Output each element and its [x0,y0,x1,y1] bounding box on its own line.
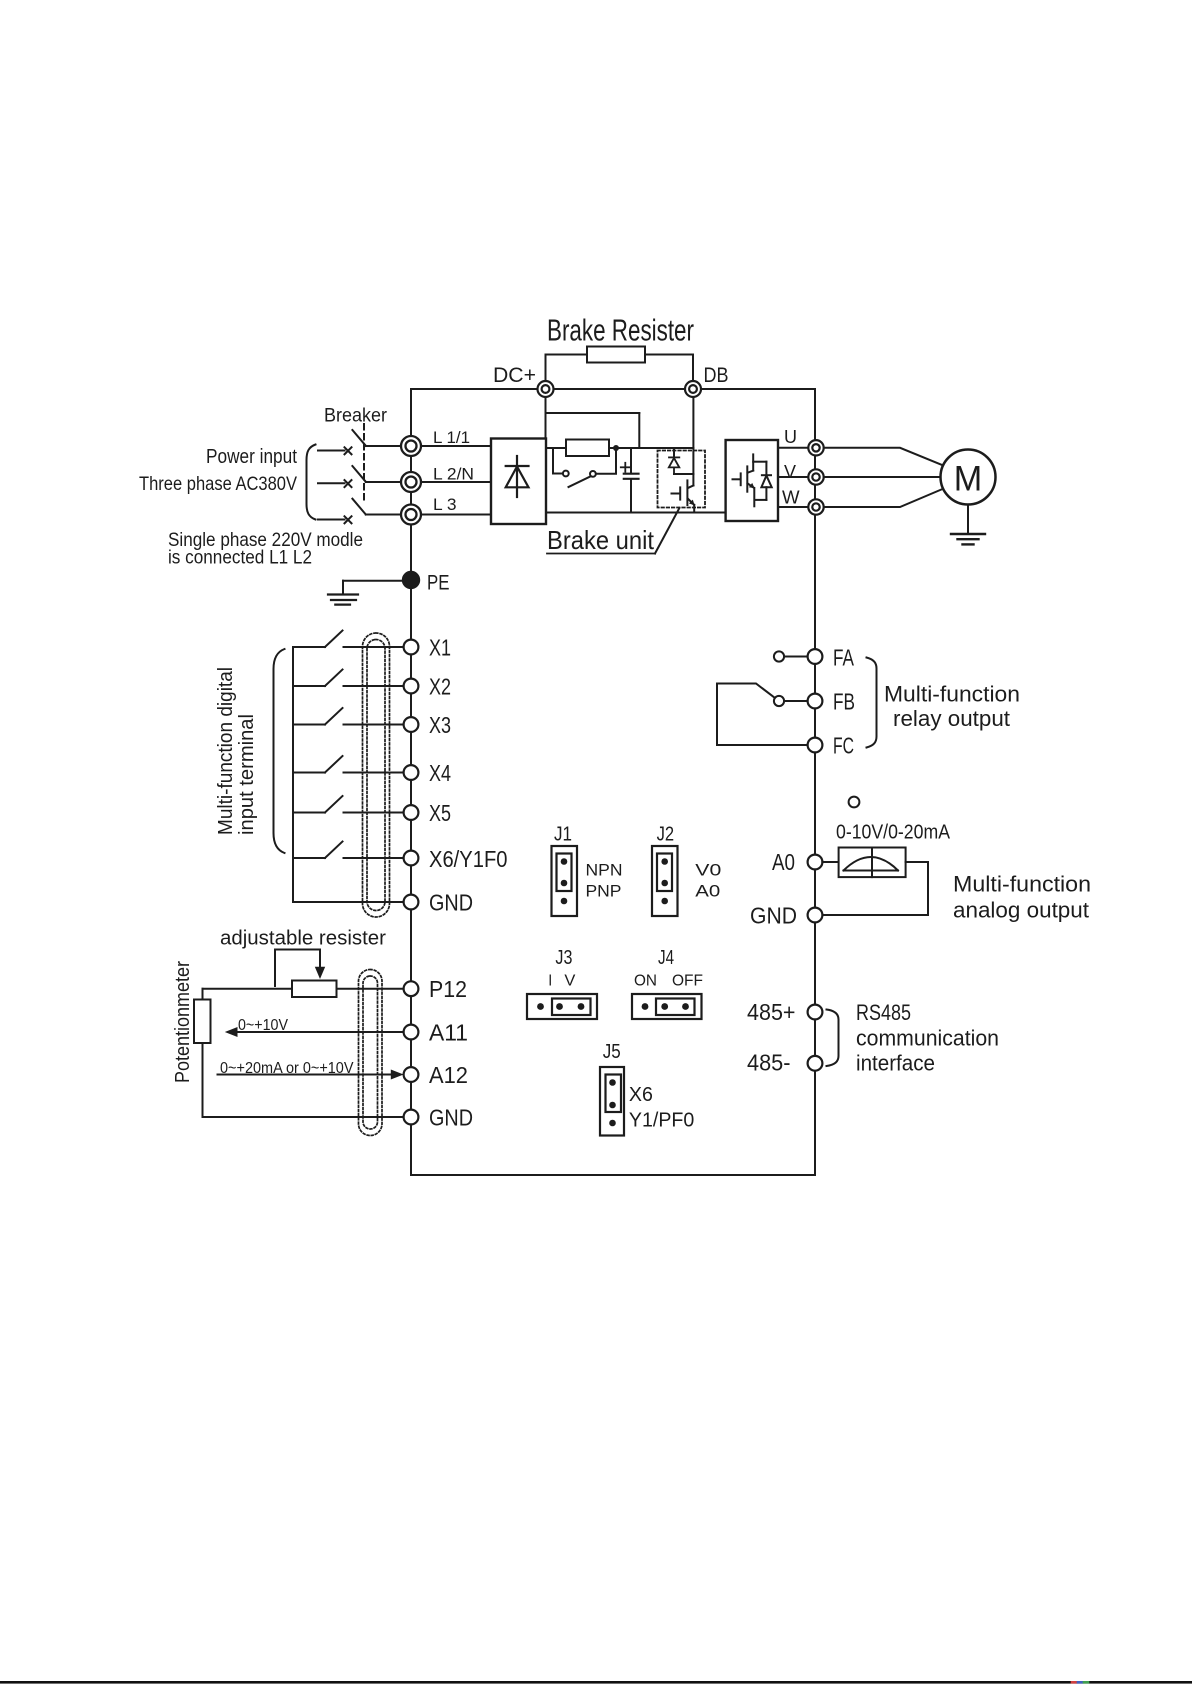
terminal L2/N (double circle) [401,472,421,492]
wire: L2 to rectifier [421,481,491,483]
decorative colored ticks on footer [1072,1681,1088,1684]
svg-text:M: M [954,459,983,499]
wire: A12 signal line [218,1074,392,1076]
svg-text:J2: J2 [657,824,675,846]
svg-text:Y1/PF0: Y1/PF0 [629,1110,694,1132]
wire: PE to earth [343,580,403,582]
wire: potentiometer rail [202,989,204,1117]
terminal P12 [404,981,419,996]
svg-text:FB: FB [833,689,855,715]
svg-text:L 1/1: L 1/1 [433,428,470,447]
terminal A11 [404,1025,419,1040]
terminal X1 [404,640,419,655]
switch X6: rail stub, blade, lead [293,842,404,859]
wire: inverter to W terminal [778,506,808,508]
switch X1: rail stub, blade, lead [293,631,404,648]
svg-text:Brake unit: Brake unit [547,525,655,555]
pin dots J5 [609,1079,616,1126]
wire: DC negative rail [546,512,726,514]
arrowhead: pointer down [315,967,325,979]
ground: PE earth symbol [328,595,358,605]
svg-text:X2: X2 [429,673,451,699]
wire: brake unit pointer [655,508,679,554]
terminal GND analog output [808,908,823,923]
wire: main frame left bus [410,389,412,1175]
shield: analog cable screen outer [359,970,383,1136]
svg-text:W: W [782,488,800,508]
svg-text:Brake Resister: Brake Resister [547,313,694,348]
wire: brake resistor lead right [645,354,693,356]
wire: capacitor drop [630,448,632,473]
svg-text:OFF: OFF [672,972,703,989]
terminal L3 (double circle) [401,505,421,525]
diode: brake freewheel body [669,457,680,474]
svg-text:ON: ON [634,972,657,989]
rule: page footer line [0,1681,1192,1684]
wire: brake diode to DB line [674,473,693,475]
svg-text:GND: GND [750,903,797,929]
svg-text:DC+: DC+ [493,364,536,387]
node: analog output marker circle [849,797,860,808]
jumper J1 header [552,846,578,916]
node: L2 disconnect X mark [345,480,352,487]
wire: adjustable resister pointer [275,950,320,987]
svg-text:DB: DB [704,364,729,387]
terminal L1/1 (double circle) [401,436,421,456]
resistor: adjustable resistor body [292,981,337,998]
wire: A11 signal line [237,1031,404,1033]
wire: main frame top bus [411,388,815,390]
terminal A0 [808,855,823,870]
jumper J4 header [632,994,702,1019]
svg-text:X6: X6 [629,1084,653,1106]
node: L1 disconnect X mark [345,447,352,454]
jumper J3 cap [552,999,591,1016]
svg-text:V: V [784,462,796,482]
brake unit dashed enclosure [658,451,706,508]
terminal X5 [404,805,419,820]
svg-text:is connected L1 L2: is connected L1 L2 [168,547,312,569]
shield: digital cable screen inner [367,640,385,911]
arrowhead: A11 arrow left [225,1027,238,1037]
svg-text:J5: J5 [603,1041,621,1063]
relay contact FA pole [774,651,784,661]
terminal FB [808,694,823,709]
switch: bypass contact right pole [590,471,596,477]
switch: bypass contact left pole [563,471,569,477]
wire: earth drop [342,581,344,595]
svg-text:NPN: NPN [586,861,623,880]
svg-text:X6/Y1F0: X6/Y1F0 [429,846,508,872]
svg-text:Multi-function: Multi-function [884,682,1020,707]
svg-text:P12: P12 [429,976,467,1002]
terminal A12 [404,1067,419,1082]
svg-text:X5: X5 [429,800,451,826]
svg-text:Three phase AC380V: Three phase AC380V [139,473,297,495]
wire: phase L3 source stub [318,519,345,521]
breaker pole 3 blade [352,499,365,515]
pin dots J4 [642,1003,689,1010]
jumper J5 cap [606,1075,622,1113]
bracket: power input brace [307,445,316,520]
diode: brake freewheel stub [673,448,675,457]
svg-text:J3: J3 [555,947,572,969]
bracket: RS485 pair brace [827,1010,839,1067]
svg-text:A0: A0 [695,882,720,901]
terminal 485+ [808,1005,823,1020]
meter: analog output meter box [839,848,906,878]
capacitor C1 plates [624,474,639,479]
diode inside rectifier [506,456,529,497]
terminal GND analog input [404,1110,419,1125]
svg-text:0~+10V: 0~+10V [238,1017,288,1034]
switch: bypass blade [569,477,591,488]
breaker pole 1 blade [352,430,365,446]
arrowhead: A12 arrow right [391,1070,404,1080]
svg-text:GND: GND [429,889,473,915]
ground: motor earth symbol [951,534,985,544]
wire: P12 lead left [203,988,293,990]
terminal W (double circle) [808,499,823,514]
terminal FA [808,649,823,664]
switch X3: rail stub, blade, lead [293,708,404,725]
wire: V phase to motor [824,476,941,478]
svg-text:0-10V/0-20mA: 0-10V/0-20mA [836,820,950,843]
wire: meter to GND loop [822,862,928,915]
svg-text:FC: FC [833,733,854,759]
switch X2: rail stub, blade, lead [293,670,404,687]
breaker linkage dashed tie [363,424,365,503]
svg-text:A11: A11 [429,1019,468,1045]
relay armature and common to FC [717,684,808,746]
shield: analog cable screen inner [363,976,378,1129]
jumper J3 header [527,994,597,1019]
wire: FB pole to terminal [784,700,807,702]
wire: L3 to rectifier [421,514,491,516]
jumper J4 cap [656,999,695,1016]
svg-text:X1: X1 [429,634,451,660]
wire: FA pole to terminal [784,656,807,658]
wire: bypass drop from DC link [553,448,563,474]
svg-text:L 2/N: L 2/N [433,465,474,484]
svg-text:X4: X4 [429,760,451,786]
pin dots J3 [537,1003,584,1010]
svg-text:485+: 485+ [747,999,796,1025]
wire: phase L2 source stub [318,482,345,484]
jumper J5 header [600,1067,624,1136]
node: L3 disconnect X mark [345,516,352,523]
potentiometer body [194,1000,211,1044]
wire: DC+ branch horizontal [546,412,640,414]
svg-text:J1: J1 [554,824,572,846]
wire: analog GND return [203,1116,404,1118]
svg-text:Multi-function digital: Multi-function digital [215,667,237,835]
wire: digital input common rail [292,647,294,902]
svg-text:GND: GND [429,1104,473,1130]
wire: bypass to junction [596,451,616,474]
wire: inverter to U terminal [778,447,808,449]
bracket: relay output brace [867,658,877,748]
wire: DB drop to brake IGBT [692,397,694,486]
svg-text:0~+20mA or 0~+10V: 0~+20mA or 0~+10V [220,1060,354,1077]
wire: L2 lead to terminal [366,481,401,483]
terminal 485- [808,1056,823,1071]
wire: DB riser [692,355,694,382]
svg-text:interface: interface [856,1050,935,1075]
wire: L3 lead to terminal [366,514,401,516]
jumper J2 cap [657,854,672,892]
svg-text:communication: communication [856,1025,999,1050]
svg-text:U: U [784,427,797,447]
svg-text:I: I [548,972,552,989]
terminal FC [808,738,823,753]
svg-text:V0: V0 [695,861,721,880]
wire: phase L1 source stub [318,450,345,452]
wire: DC+ riser [545,355,547,382]
wire: L1 to rectifier [421,445,491,447]
jumper J1 cap [557,854,572,892]
switch X5: rail stub, blade, lead [293,796,404,813]
node PE (solid dot) [403,572,419,588]
wire: DC link bus [546,447,693,449]
wire: inverter to V terminal [778,476,808,478]
svg-text:Multi-function: Multi-function [953,872,1091,897]
transistor Q1 brake IGBT [672,480,695,512]
resistor: pre-charge resistor body [566,440,609,457]
shield: digital cable screen outer [363,633,390,917]
svg-text:Potentionmeter: Potentionmeter [172,961,194,1083]
wire: digital GND return [293,901,404,903]
svg-text:adjustable resister: adjustable resister [220,928,386,950]
terminal X4 [404,765,419,780]
rectifier U1 box [491,439,546,525]
wire: motor earth lead [967,505,969,534]
label: capacitor plus sign [621,463,630,472]
terminal U (double circle) [808,440,823,455]
svg-text:RS485: RS485 [856,1000,911,1025]
relay contact FB pole [774,696,784,706]
svg-text:input terminal: input terminal [236,714,258,835]
terminal X3 [404,717,419,732]
terminal V (double circle) [808,469,823,484]
jumper J2 header [652,846,678,916]
switch X4: rail stub, blade, lead [293,756,404,773]
pin dots J2 [661,858,668,904]
breaker pole 2 blade [352,466,365,482]
terminal DB (double circle) [685,381,701,397]
svg-text:X3: X3 [429,712,451,738]
svg-text:A12: A12 [429,1062,468,1088]
transistor Q2 inverter IGBT with diode [733,454,772,506]
svg-text:PNP: PNP [586,882,622,901]
wire: capacitor to negative rail [630,480,632,513]
wire: W phase to motor [824,490,942,508]
wire: P12 lead right [337,988,404,990]
inverter U2 box [726,440,778,521]
node: DC link junction dot [613,445,619,451]
resistor: Brake Resister body [587,347,645,363]
wire: DC+ branch drop [638,413,640,448]
wire: brake resistor lead left [546,354,588,356]
svg-text:485-: 485- [747,1050,791,1076]
svg-text:analog output: analog output [953,897,1089,922]
svg-text:Power input: Power input [206,446,297,468]
svg-text:Breaker: Breaker [324,406,388,427]
wire: L1 lead to terminal [366,445,401,447]
svg-text:A0: A0 [772,849,795,875]
svg-text:PE: PE [427,571,450,595]
svg-text:FA: FA [833,644,854,670]
terminal X2 [404,679,419,694]
wire: U phase to motor [824,448,942,465]
motor M circle [941,450,996,505]
wire: main frame bottom edge [411,1174,815,1176]
wire: DC+ drop to rectifier [545,397,547,439]
bracket: digital input brace [274,649,285,853]
wire: brake unit label underline [547,553,655,555]
pin dots J1 [561,858,568,904]
svg-text:relay output: relay output [893,706,1010,731]
meter needle scale [844,848,899,878]
terminal X6/Y1F0 [404,851,419,866]
terminal DC+ (double circle) [538,381,554,397]
svg-text:L 3: L 3 [433,495,457,514]
svg-text:J4: J4 [658,947,674,969]
wire: A0 to meter [822,861,838,863]
terminal GND [404,895,419,910]
svg-text:V: V [564,972,576,989]
wire: main frame right bus [814,389,816,1175]
